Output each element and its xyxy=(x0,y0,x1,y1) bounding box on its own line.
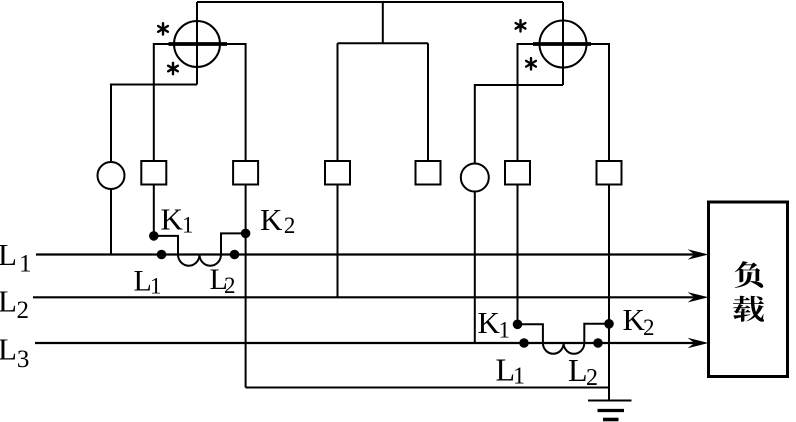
ground bar 3 xyxy=(603,418,619,422)
CT1 terminal dot K1 xyxy=(149,231,159,241)
wire: left fuse down to line L1 xyxy=(110,189,112,255)
CT1 terminal dot K2 xyxy=(241,229,251,239)
CT2 secondary step wire right (K2 lead) xyxy=(584,324,609,343)
polarity mark * W2 voltage coil xyxy=(526,58,536,69)
top bus wire connecting both meter voltage circuits xyxy=(197,1,563,3)
ground bar 2 xyxy=(598,409,625,412)
bus L2 line xyxy=(33,296,701,298)
wire: W1 center vertical through circle xyxy=(196,2,198,85)
svg-text:2: 2 xyxy=(643,315,655,340)
wire: W2 bar right lead down to terminal F xyxy=(591,44,609,161)
terminal box F xyxy=(597,161,622,185)
wire: middle tap from top bus xyxy=(382,2,384,43)
ground bar 1 xyxy=(588,400,632,402)
svg-text:1: 1 xyxy=(499,318,511,343)
CT1 secondary winding humps xyxy=(178,255,221,266)
terminal box B xyxy=(233,161,258,185)
CT1 secondary step wire left (K1 lead) xyxy=(154,236,178,255)
CT2 primary dot L2 xyxy=(593,338,603,348)
wire: W1 voltage lead from circle bottom to left fuse xyxy=(111,85,197,163)
CT2 secondary winding humps xyxy=(543,343,584,354)
svg-text:1: 1 xyxy=(182,213,194,238)
arrowhead L2 into load xyxy=(688,292,709,302)
svg-text:2: 2 xyxy=(224,273,236,298)
polarity mark * W1 voltage coil xyxy=(168,63,178,74)
wire: terminal B down through CT1 K2 to earth bus xyxy=(245,185,247,388)
CT1 primary dot L2 xyxy=(230,250,240,260)
wattmeter W1 circle xyxy=(174,21,220,67)
wire: right fuse down to line L3 xyxy=(474,192,476,344)
bus L1 line xyxy=(36,253,701,255)
wire: crossbar left drop to terminal C xyxy=(337,43,339,161)
svg-text:L: L xyxy=(0,283,17,318)
CT1 secondary step wire right (K2 lead) xyxy=(221,233,246,254)
fuse circle right xyxy=(461,164,489,192)
CT2 terminal dot K1 xyxy=(513,320,523,330)
arrowhead L1 into load xyxy=(688,249,709,259)
wire: terminal E down to CT2 K1 xyxy=(517,185,519,325)
svg-text:K: K xyxy=(161,202,184,237)
wire: W2 voltage lead from circle bottom to right fuse xyxy=(475,85,563,164)
wire: middle crossbar xyxy=(338,42,429,44)
earth bus wire xyxy=(246,387,609,389)
svg-text:L: L xyxy=(0,237,17,272)
svg-text:2: 2 xyxy=(284,213,296,238)
arrowhead L3 into load xyxy=(688,338,709,348)
CT2 terminal dot K2 xyxy=(604,319,614,329)
svg-text:L: L xyxy=(568,352,588,388)
fuse circle left xyxy=(98,162,125,189)
wire: W1 bar left lead down to terminal A xyxy=(154,44,169,161)
wire: W1 bar right lead down to terminal B xyxy=(227,44,246,161)
terminal box C xyxy=(325,161,350,185)
svg-text:3: 3 xyxy=(17,346,30,373)
svg-text:1: 1 xyxy=(150,273,162,298)
svg-text:1: 1 xyxy=(513,364,525,390)
wire: terminal F down through CT2 K2 to earth bus xyxy=(608,185,610,388)
load text 负 xyxy=(735,261,764,288)
terminal box E xyxy=(505,161,530,185)
svg-text:L: L xyxy=(0,332,17,367)
polarity mark * W1 current coil xyxy=(158,23,168,34)
wire: W2 center vertical through circle xyxy=(562,2,564,85)
svg-text:K: K xyxy=(260,202,283,237)
svg-text:2: 2 xyxy=(586,365,598,391)
wire: crossbar right drop to terminal D xyxy=(427,43,429,161)
svg-text:1: 1 xyxy=(19,250,32,277)
wire: W2 bar left lead down to terminal E xyxy=(518,44,534,161)
CT1 primary dot L1 xyxy=(157,250,167,260)
wattmeter W2 circle xyxy=(540,21,587,68)
terminal box D xyxy=(416,161,441,185)
wattmeter W1 current-coil bar xyxy=(169,42,228,46)
load box xyxy=(709,202,788,377)
svg-text:2: 2 xyxy=(17,297,30,324)
wire: terminal C down to line L2 xyxy=(337,185,339,298)
CT2 secondary step wire left (K1 lead) xyxy=(518,324,543,343)
terminal box A xyxy=(141,161,166,185)
load text 载 xyxy=(733,296,764,322)
polarity mark * W2 current coil xyxy=(516,20,526,31)
CT2 primary dot L1 xyxy=(519,338,529,348)
wattmeter W2 current-coil bar xyxy=(533,42,591,46)
wire: terminal A down to CT1 K1 xyxy=(153,185,155,236)
ground stem xyxy=(608,388,610,401)
bus L3 line xyxy=(35,342,701,344)
svg-text:K: K xyxy=(478,305,501,340)
